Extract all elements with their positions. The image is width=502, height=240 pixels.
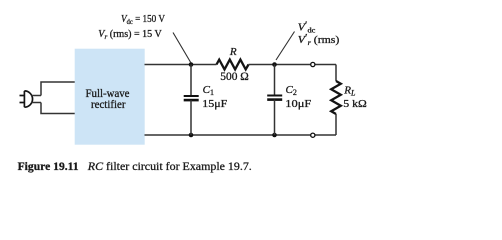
terminal open circle top <box>311 62 315 66</box>
label C2 <box>286 84 297 97</box>
wire C1 upper lead <box>190 65 192 97</box>
svg-text:V′r (rms): V′r (rms) <box>298 33 340 47</box>
node top-left <box>189 62 194 67</box>
node bottom-left <box>189 133 194 138</box>
node top-right <box>272 62 277 67</box>
label Vr (rms) = 15 V <box>98 29 162 41</box>
label V'r (rms) <box>298 33 340 47</box>
capacitor C2 <box>267 96 282 100</box>
svg-text:RC filter circuit for Example: RC filter circuit for Example 19.7. <box>87 159 252 173</box>
svg-text:500 Ω: 500 Ω <box>220 71 249 83</box>
label 500 ohm <box>220 71 249 83</box>
svg-text:15μF: 15μF <box>202 98 227 110</box>
pointer line right Vdc <box>276 32 295 61</box>
label V'dc <box>298 21 316 35</box>
pointer line left Vdc <box>173 33 191 64</box>
svg-text:10μF: 10μF <box>285 98 311 110</box>
svg-text:rectifier: rectifier <box>91 97 126 111</box>
wire RL branch upper <box>335 65 337 82</box>
wire plug lower lead <box>32 102 42 104</box>
wire top rail right of R <box>249 64 337 66</box>
wire left upper L <box>41 82 75 96</box>
capacitor C1 <box>184 96 199 100</box>
resistor R <box>217 60 249 70</box>
caption Figure 19.11 <box>18 159 79 173</box>
label 10uF <box>285 98 311 110</box>
svg-text:Figure 19.11: Figure 19.11 <box>18 159 79 173</box>
wire C1 lower lead <box>190 100 192 135</box>
wire RL branch lower <box>335 114 337 135</box>
ac plug P1 <box>20 91 33 107</box>
label C1 <box>203 84 214 97</box>
svg-text:R: R <box>229 46 237 58</box>
wire left lower L <box>41 103 75 114</box>
wire C2 upper lead <box>274 65 276 96</box>
resistor RL <box>331 81 341 114</box>
label 5 kohm <box>343 98 367 110</box>
svg-text:Vr (rms) = 15 V: Vr (rms) = 15 V <box>98 29 162 41</box>
node bottom-right <box>272 133 277 138</box>
label Vdc = 150 V <box>121 14 165 26</box>
label 15uF <box>202 98 227 110</box>
wire top rail <box>145 64 217 66</box>
wire bottom rail <box>145 134 337 136</box>
label RL <box>343 85 356 98</box>
full-wave rectifier block <box>75 49 145 145</box>
terminal open circle bottom <box>311 133 315 137</box>
caption description <box>87 159 252 173</box>
wire plug upper lead <box>32 95 42 97</box>
svg-text:5 kΩ: 5 kΩ <box>343 98 367 110</box>
wire C2 lower lead <box>274 100 276 135</box>
